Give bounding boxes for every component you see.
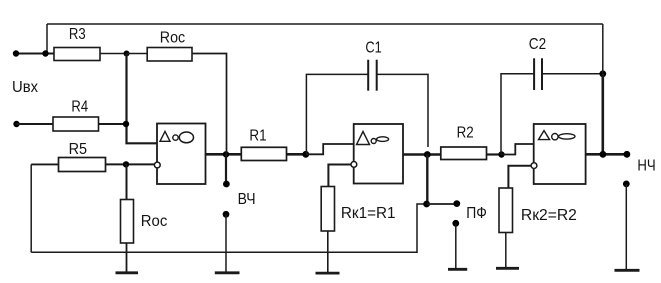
wire node H down to PF node (426, 155, 428, 205)
wire R5 to op-amp U1 inverting input (106, 163, 155, 165)
wire bottom feedback horizontal (31, 204, 426, 252)
svg-text:ПФ: ПФ (466, 205, 487, 222)
wire node J to op-amp U3 top input (502, 144, 534, 155)
wire op-amp U3 output (586, 153, 627, 156)
svg-text:НЧ: НЧ (637, 157, 655, 174)
wire C2 right to vertical feedback (542, 73, 603, 75)
node junction H (U2 output / C1 / PF) (424, 151, 431, 158)
wire VCh stub (225, 154, 227, 184)
wire vertical right feedback lower (601, 74, 604, 155)
node input terminal Uvx upper (13, 50, 19, 56)
svg-text:ВЧ: ВЧ (238, 191, 256, 208)
svg-text:C1: C1 (365, 39, 381, 56)
node junction C (R3/R4/Roc summing) (124, 51, 130, 57)
op-amp U3 (531, 124, 586, 184)
resistor R2 (441, 147, 487, 160)
wire bottom feedback left vertical (30, 164, 32, 252)
wire R5 left (31, 163, 58, 165)
node input terminal Uvx lower (13, 121, 19, 127)
wire R1 right to node G (287, 153, 307, 156)
resistor R1 (241, 147, 286, 160)
wire R3 to node C (100, 53, 127, 55)
node junction B (R3 left / top feedback) (42, 50, 48, 56)
node PF output terminal (453, 200, 460, 207)
wire U3 inverting input to Rk2 (508, 166, 531, 188)
resistor R5 (59, 158, 106, 172)
wire U2 inverting input to Rk1 (328, 165, 351, 187)
svg-text:Uвх: Uвх (12, 79, 38, 96)
wire input terminal to R4 (17, 123, 54, 125)
resistor Roc top (147, 48, 192, 62)
wire input terminal to R3 (16, 53, 54, 55)
node VCh output terminal (223, 181, 230, 188)
node junction L (U3 output / feedback) (600, 151, 607, 158)
wire node G up to C1 (306, 74, 368, 154)
wire NCh ground stub (625, 184, 627, 270)
wire vertical from input node up to top wire (46, 24, 48, 54)
wire Rk2 to ground (505, 233, 507, 269)
capacitor C1 (365, 39, 381, 90)
ground below Roc (116, 271, 139, 274)
node junction F (U1 output) (223, 151, 229, 157)
resistor Rk2 (499, 188, 513, 233)
wire PF ground stub (455, 223, 457, 269)
wire VCh ground stub (225, 214, 227, 272)
wire Roc right down to U1 output (192, 54, 227, 155)
svg-text:C2: C2 (529, 36, 546, 53)
node junction D (R4 to bus) (123, 121, 129, 127)
node NCh output terminal (624, 151, 631, 158)
node junction E (R5 / Roc) (123, 161, 129, 167)
svg-text:R5: R5 (69, 141, 87, 158)
wire C1 right down to U2 output node (377, 74, 428, 147)
wire node G to op-amp U2 top input (306, 144, 354, 154)
svg-text:R3: R3 (69, 26, 86, 43)
node PF ground terminal (452, 220, 459, 227)
wire vertical right feedback upper (602, 24, 604, 74)
op-amp U1 (154, 124, 205, 185)
resistor Rk1 (321, 187, 334, 232)
wire R2 right to node J (487, 153, 502, 155)
svg-text:R2: R2 (457, 125, 474, 142)
ground below NCh (615, 269, 640, 272)
svg-text:R4: R4 (71, 99, 88, 116)
wire op-amp U2 output (403, 153, 441, 156)
capacitor C2 (529, 36, 546, 90)
wire E down to Roc vertical (126, 164, 128, 199)
op-amp U2 (351, 124, 403, 184)
wire vertical summing bus down to op-amp U1 top input (127, 54, 158, 144)
resistor R4 (53, 117, 99, 131)
svg-text:Rк1=R1: Rк1=R1 (341, 205, 396, 222)
node junction I (PF) (423, 201, 430, 208)
node NCh ground terminal (623, 181, 630, 188)
wire node C to Roc (127, 53, 148, 55)
wire op-amp U1 output (206, 153, 242, 156)
resistor Roc vertical (121, 200, 134, 244)
node junction K (C2 / top feedback) (599, 70, 606, 77)
wire Rk1 to ground (327, 231, 329, 273)
resistor R3 (54, 48, 100, 61)
wire node J up to C2 (501, 74, 534, 155)
svg-text:Roc: Roc (141, 213, 168, 230)
svg-text:R1: R1 (249, 128, 266, 145)
wire top feedback (NCh node to R3 input) (47, 23, 603, 25)
ground below Rk1 (316, 272, 340, 275)
ground below VCh (215, 271, 240, 274)
svg-text:Rк2=R2: Rк2=R2 (521, 207, 577, 224)
node VCh ground terminal (223, 211, 230, 218)
svg-text:Roc: Roc (160, 30, 185, 47)
node junction J (R2 / C2 / U3 input) (498, 151, 504, 157)
ground below PF (448, 268, 467, 271)
ground below Rk2 (496, 267, 519, 270)
wire Roc vertical to ground (126, 243, 128, 273)
node junction G (R1 / C1 / U2 input) (302, 151, 309, 158)
wire PF node to terminal (427, 203, 457, 205)
wire R4 to summing bus (99, 123, 127, 125)
